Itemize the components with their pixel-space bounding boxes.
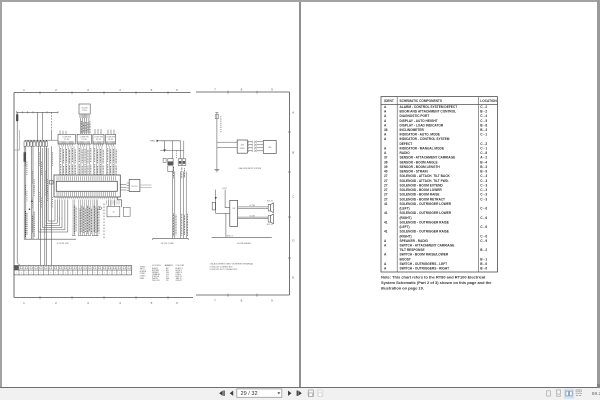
toolbar background [0, 388, 600, 400]
svg-text:7: 7 [214, 88, 216, 92]
svg-text:P3 XX: P3 XX [96, 139, 102, 141]
svg-text:2: 2 [55, 301, 57, 305]
svg-text:(LEFT): (LEFT) [400, 225, 410, 229]
svg-text:B - 2: B - 2 [480, 110, 487, 114]
caption J2 panel pin [57, 243, 69, 245]
svg-text:SWITCH - BOOM RAISE/LOWER: SWITCH - BOOM RAISE/LOWER [400, 253, 449, 257]
svg-text:(RIGHT): (RIGHT) [400, 216, 412, 220]
svg-text:C - 3: C - 3 [480, 174, 487, 178]
svg-text:YE: YE [166, 280, 169, 282]
svg-text:3: 3 [114, 273, 115, 275]
svg-text:SOLENOID - OUTRIGGER LOWER: SOLENOID - OUTRIGGER LOWER [400, 211, 452, 215]
wire bundles below J2 straight runs [72, 200, 99, 236]
zone numbers 7-9 [214, 88, 273, 303]
svg-text:5: 5 [151, 301, 153, 305]
svg-text:6: 6 [85, 273, 86, 275]
connector J1 right of block [120, 180, 151, 192]
svg-text:P2 XX: P2 XX [82, 139, 88, 141]
svg-text:A: A [384, 244, 387, 248]
svg-text:SENSOR - ATTACHMENT CARRIAGE: SENSOR - ATTACHMENT CARRIAGE [400, 156, 456, 160]
toolbar prev-view (disabled) [308, 390, 313, 397]
svg-text:8: 8 [94, 273, 95, 275]
toolbar separator line [0, 387, 600, 389]
zone numbers 1-6 top and bottom [23, 88, 178, 305]
wire bundle P1 to CPU connector [60, 146, 76, 175]
wire bundle P2 to CPU connector [78, 146, 91, 175]
svg-text:B - 4: B - 4 [480, 160, 487, 164]
note paragraph [381, 275, 492, 291]
viewer top border bar [0, 0, 600, 2]
svg-text:SWITCH - OUTRIGGERS - RIGHT: SWITCH - OUTRIGGERS - RIGHT [400, 267, 450, 271]
svg-text:2 CIRCUIT CONNECTED: 2 CIRCUIT CONNECTED [210, 266, 234, 268]
svg-text:GND 0 V: GND 0 V [226, 235, 234, 237]
svg-text:C - 1: C - 1 [480, 147, 487, 151]
svg-text:27: 27 [384, 197, 388, 201]
svg-text:1: 1 [60, 273, 61, 275]
svg-text:(LEFT): (LEFT) [400, 207, 410, 211]
svg-text:TILT RESPONSE: TILT RESPONSE [400, 248, 425, 252]
svg-text:B - 9: B - 9 [480, 170, 487, 174]
svg-text:SOLENOID - OUTRIGGER RAISE: SOLENOID - OUTRIGGER RAISE [400, 220, 449, 224]
svg-text:24 VOLT GRD: 24 VOLT GRD [161, 243, 175, 245]
connector P1 [58, 134, 75, 146]
diode modules D1 D2 [178, 159, 186, 166]
svg-text:27: 27 [384, 174, 388, 178]
caption ground bus [161, 243, 175, 245]
svg-text:(RIGHT): (RIGHT) [400, 234, 412, 238]
svg-text:illustration on page 19.: illustration on page 19. [381, 286, 424, 291]
toolbar next-page button [288, 391, 292, 396]
svg-text:B - 2: B - 2 [480, 248, 487, 252]
svg-text:B - 8: B - 8 [480, 123, 487, 127]
svg-text:41: 41 [384, 202, 388, 206]
svg-text:BOOM: BOOM [82, 107, 88, 109]
zone letters A-E right edge [292, 111, 295, 280]
connector hatch between display and module [249, 141, 264, 152]
svg-text:6: 6 [41, 273, 42, 275]
svg-text:27: 27 [384, 183, 388, 187]
svg-text:BOOM AND ATTACHMENT CONTROL: BOOM AND ATTACHMENT CONTROL [400, 110, 457, 114]
svg-text:ABBREV: ABBREV [165, 264, 174, 267]
connector J3 below block [107, 200, 130, 217]
svg-text:DISPLAY - LOAD INDICATOR: DISPLAY - LOAD INDICATOR [400, 123, 444, 127]
stub wires above connectors P1 P3 P4 [60, 129, 114, 134]
svg-text:3: 3 [87, 301, 89, 305]
svg-text:DEFECT: DEFECT [400, 142, 413, 146]
svg-text:C - 8: C - 8 [480, 151, 487, 155]
svg-text:SCHEMATIC COMPONENTS: SCHEMATIC COMPONENTS [400, 99, 442, 103]
branch wires down from RED feed [160, 141, 184, 159]
svg-text:C - 6: C - 6 [480, 216, 487, 220]
sheet border: right fold (zones 7-9) [196, 91, 291, 297]
svg-text:C - 6: C - 6 [480, 225, 487, 229]
svg-text:DIAGNOSTIC PORT: DIAGNOSTIC PORT [400, 114, 430, 118]
svg-text:J3: J3 [112, 212, 114, 214]
svg-text:SWITCH - OUTRIGGERS - LEFT: SWITCH - OUTRIGGERS - LEFT [400, 262, 448, 266]
svg-text:8: 8 [241, 299, 243, 303]
svg-text:SENSOR - STRAIN: SENSOR - STRAIN [400, 170, 429, 174]
svg-text:BOOST: BOOST [400, 257, 411, 261]
toolbar last-page button [297, 391, 302, 396]
svg-text:CTRL: CTRL [82, 110, 87, 112]
svg-text:6: 6 [176, 301, 178, 305]
dashed screen wire [103, 204, 105, 240]
svg-text:C: C [292, 195, 295, 199]
toolbar next-view (disabled) [318, 390, 323, 397]
svg-text:C - 3: C - 3 [480, 188, 487, 192]
terminal strip id column [140, 266, 147, 280]
inline connector symbols row [24, 140, 48, 146]
outrigger supply label [222, 188, 227, 190]
relay module K2 [163, 158, 173, 171]
svg-text:IDENT: IDENT [384, 99, 394, 103]
svg-text:A: A [384, 114, 387, 118]
layout two-page continuous icon [575, 390, 582, 396]
svg-text:A: A [384, 119, 387, 123]
svg-text:SOLENOID - ATTACH. TILT FWD.: SOLENOID - ATTACH. TILT FWD. [400, 179, 449, 183]
middle wires to ground bus [153, 167, 189, 240]
svg-text:C - 5: C - 5 [480, 119, 487, 123]
svg-text:2: 2 [109, 273, 110, 275]
svg-text:SPEAKER - RADIO: SPEAKER - RADIO [400, 239, 429, 243]
svg-text:DIS: DIS [241, 145, 245, 147]
connector P4 [106, 134, 116, 146]
svg-text:SWITCH - ATTACHMENT CARRIAGE: SWITCH - ATTACHMENT CARRIAGE [400, 244, 455, 248]
svg-text:SOLENOID - OUTRIGGER LOWER: SOLENOID - OUTRIGGER LOWER [400, 202, 452, 206]
inline fuse component left [14, 130, 26, 162]
svg-text:INDICATOR - MANUAL MODE: INDICATOR - MANUAL MODE [400, 147, 444, 151]
svg-text:3: 3 [87, 88, 89, 92]
svg-text:A: A [384, 239, 387, 243]
svg-text:PWR: PWR [140, 278, 145, 280]
wire labels along left runs [25, 152, 52, 237]
zoom percent text [592, 391, 600, 397]
viewer left border strip [0, 0, 2, 388]
load indicator supply wire [215, 113, 237, 170]
scrollbar bottom cap [597, 384, 600, 389]
svg-text:69.2: 69.2 [592, 391, 600, 397]
svg-text:B: B [292, 151, 294, 155]
svg-text:LMI: LMI [268, 147, 272, 149]
load indicator unit box [263, 141, 276, 154]
svg-text:J1/CPU: J1/CPU [131, 186, 138, 188]
page separator between two pages [299, 2, 301, 387]
svg-text:36: 36 [384, 128, 388, 132]
svg-text:27: 27 [384, 188, 388, 192]
svg-text:INCLINOMETER: INCLINOMETER [400, 128, 425, 132]
svg-text:40: 40 [384, 170, 388, 174]
svg-text:B - 1: B - 1 [480, 257, 487, 261]
svg-text:A: A [384, 151, 387, 155]
svg-text:D: D [292, 239, 295, 243]
solenoid Y1 [267, 201, 274, 213]
svg-text:SOLENOID - BOOM LOWER: SOLENOID - BOOM LOWER [400, 188, 443, 192]
svg-text:C - 6: C - 6 [480, 234, 487, 238]
svg-text:LOCATION: LOCATION [480, 99, 497, 103]
join bus above inline connectors [25, 112, 58, 142]
svg-text:24 V: 24 V [222, 188, 227, 190]
svg-text:SOLENOID - BOOM RETRACT: SOLENOID - BOOM RETRACT [400, 197, 446, 201]
svg-text:4: 4 [31, 273, 32, 275]
wire bundle P3 to CPU connector [94, 146, 104, 175]
svg-text:P1 XX: P1 XX [64, 139, 70, 141]
svg-text:ALARM - CONTROL SYSTEM DEFECT: ALARM - CONTROL SYSTEM DEFECT [400, 105, 458, 109]
svg-text:OUTRIGGERS: OUTRIGGERS [237, 243, 252, 245]
svg-text:SENSOR - BOOM LENGTH: SENSOR - BOOM LENGTH [400, 165, 441, 169]
svg-text:SOLENOID - OUTRIGGER RAISE: SOLENOID - OUTRIGGER RAISE [400, 230, 449, 234]
svg-text:LOAD INDICATOR SYSTEM: LOAD INDICATOR SYSTEM [238, 167, 262, 170]
sheet border: left fold (zones 1-6) [14, 91, 193, 299]
display module box [237, 140, 247, 153]
svg-text:SOL 41: SOL 41 [267, 224, 273, 226]
svg-text:37: 37 [384, 156, 388, 160]
svg-text:41: 41 [384, 211, 388, 215]
svg-text:1: 1 [23, 301, 25, 305]
svg-text:RADIO: RADIO [400, 151, 411, 155]
caption LOAD INDICATOR SYSTEM [238, 167, 262, 170]
junction dots left runs [29, 200, 33, 210]
svg-text:C - 3: C - 3 [480, 197, 487, 201]
svg-text:1: 1 [104, 273, 105, 275]
svg-text:8: 8 [50, 273, 51, 275]
terminal strip TB1 [14, 265, 132, 275]
svg-text:INDICATOR - CONTROL SYSTEM: INDICATOR - CONTROL SYSTEM [400, 137, 450, 141]
svg-text:3 CIRCUIT NOT CONNECTED: 3 CIRCUIT NOT CONNECTED [210, 269, 238, 271]
svg-text:3: 3 [70, 273, 71, 275]
svg-text:41: 41 [384, 230, 388, 234]
svg-text:J2 CPRL PIN: J2 CPRL PIN [57, 243, 69, 245]
wire colour legend table [152, 264, 185, 282]
svg-text:3: 3 [26, 273, 27, 275]
layout continuous icon [556, 390, 560, 396]
module: boom and attachment control head [79, 104, 90, 118]
wire bundle P4 to CPU connector [107, 146, 117, 175]
dashed drop wire from bus [51, 112, 53, 131]
svg-text:System Schematic (Part 2 of 3): System Schematic (Part 2 of 3) shown on … [381, 280, 492, 285]
svg-text:4: 4 [75, 273, 76, 275]
svg-text:INDICATOR - AUTO. MODE: INDICATOR - AUTO. MODE [400, 133, 440, 137]
svg-text:B - 6: B - 6 [480, 267, 487, 271]
svg-text:27: 27 [384, 179, 388, 183]
outrigger ground bus [212, 213, 272, 237]
svg-text:5: 5 [151, 88, 153, 92]
svg-text:5: 5 [124, 273, 125, 275]
CPU connector block J2 outer shell [50, 175, 122, 207]
svg-text:2: 2 [65, 273, 66, 275]
svg-text:×2 41B: ×2 41B [249, 214, 256, 217]
toolbar page field [237, 389, 282, 397]
svg-text:O/R: O/R [232, 208, 236, 210]
RED feed label and arrow [150, 140, 180, 143]
wire bundle from control head [81, 118, 90, 134]
svg-text:39: 39 [384, 165, 388, 169]
wire harness: left vertical pair runs [24, 146, 51, 265]
svg-text:C - 1: C - 1 [480, 133, 487, 137]
junction ring [99, 207, 102, 210]
svg-text:DISPLAY - AUTO HEIGHT: DISPLAY - AUTO HEIGHT [400, 119, 438, 123]
svg-text:41: 41 [384, 220, 388, 224]
svg-text:5: 5 [36, 273, 37, 275]
svg-text:1: 1 [16, 273, 17, 275]
table header [384, 99, 497, 103]
svg-text:C - 3: C - 3 [480, 193, 487, 197]
svg-text:1: 1 [23, 88, 25, 92]
svg-text:7: 7 [45, 273, 46, 275]
outrigger junction box [230, 200, 238, 226]
toolbar first-page button [219, 391, 225, 396]
svg-text:C - 2: C - 2 [480, 142, 487, 146]
notes 1-3 [210, 263, 254, 271]
battery drop wire with inline fuse [16, 112, 20, 265]
svg-text:9: 9 [99, 273, 100, 275]
viewer right scrollbar strip [597, 0, 600, 388]
connector P3 [93, 134, 104, 146]
svg-text:A: A [384, 133, 387, 137]
svg-text:VIOLET: VIOLET [176, 280, 183, 282]
svg-text:8: 8 [241, 88, 243, 92]
svg-text:1 BLACK WIRES USED ON SER: 1 BLACK WIRES USED ON SERIES TERMINAL [210, 263, 254, 266]
J2 pin band bottom [57, 192, 116, 199]
svg-text:6: 6 [129, 273, 130, 275]
svg-text:C - 3: C - 3 [480, 179, 487, 183]
svg-text:Note: This chart refers to the: Note: This chart refers to the RT80 and … [381, 275, 485, 280]
svg-text:×2 41A: ×2 41A [249, 204, 256, 207]
svg-text:SENSOR - BOOM ANGLE: SENSOR - BOOM ANGLE [400, 160, 438, 164]
connector P2 [77, 134, 91, 146]
svg-text:A: A [384, 253, 387, 257]
layout two-page icon (active) [564, 389, 574, 399]
layout single page icon [547, 391, 551, 396]
svg-text:9: 9 [271, 88, 273, 92]
svg-text:7: 7 [89, 273, 90, 275]
toolbar prev-page button [230, 391, 234, 396]
solenoid Y1 wires [238, 204, 269, 208]
svg-text:38: 38 [384, 160, 388, 164]
svg-text:9: 9 [55, 273, 56, 275]
svg-text:6: 6 [176, 88, 178, 92]
svg-text:YELLOW: YELLOW [152, 280, 160, 282]
svg-text:C - 2: C - 2 [480, 105, 487, 109]
svg-text:A: A [384, 267, 387, 271]
svg-text:27: 27 [384, 193, 388, 197]
svg-text:SOLENOID - BOOM RAISE: SOLENOID - BOOM RAISE [400, 193, 440, 197]
table rows [384, 105, 487, 271]
svg-text:C - 4: C - 4 [480, 114, 487, 118]
wire bends: J2 left pins U-routed to left runs [24, 148, 76, 239]
svg-text:4: 4 [119, 301, 121, 305]
svg-text:4: 4 [119, 88, 121, 92]
svg-text:SOLENOID - ATTACH. TILT BACK: SOLENOID - ATTACH. TILT BACK [400, 174, 451, 178]
svg-text:B - 3: B - 3 [480, 165, 487, 169]
supply bus top-left [17, 111, 58, 114]
ground symbol load indicator [214, 170, 219, 172]
svg-text:B - 6: B - 6 [480, 262, 487, 266]
svg-text:A: A [292, 111, 294, 115]
svg-text:A: A [384, 137, 387, 141]
svg-text:B - 3: B - 3 [480, 128, 487, 132]
solenoid Y2 wires [238, 214, 269, 218]
svg-text:7: 7 [214, 299, 216, 303]
svg-text:2: 2 [55, 88, 57, 92]
svg-text:9: 9 [271, 299, 273, 303]
svg-text:2: 2 [21, 273, 22, 275]
svg-text:RED: RED [150, 141, 155, 143]
ignition drop wire with arrow [164, 141, 166, 152]
svg-text:A: A [384, 110, 387, 114]
svg-text:E: E [292, 276, 294, 280]
caption outrigger circuit [237, 243, 252, 245]
svg-text:SOL 41: SOL 41 [267, 201, 273, 203]
svg-text:A: A [384, 147, 387, 151]
svg-text:C - 3: C - 3 [480, 183, 487, 187]
svg-text:A: A [384, 123, 387, 127]
svg-text:P4 XX: P4 XX [108, 139, 114, 141]
outrigger feed wires [212, 190, 230, 214]
svg-text:A - 2: A - 2 [480, 156, 487, 160]
component table frame [381, 97, 498, 272]
svg-text:PLAY: PLAY [240, 147, 245, 150]
solenoid Y2 [267, 214, 274, 226]
svg-text:C - 6: C - 6 [480, 207, 487, 211]
svg-text:29 / 32: 29 / 32 [241, 391, 258, 397]
svg-text:5: 5 [80, 273, 81, 275]
svg-text:SOLENOID - BOOM EXTEND: SOLENOID - BOOM EXTEND [400, 183, 444, 187]
svg-text:A: A [384, 105, 387, 109]
svg-text:A: A [384, 262, 387, 266]
J2 pin band top [57, 176, 116, 180]
svg-text:4: 4 [119, 273, 120, 275]
svg-text:C - 9: C - 9 [480, 239, 487, 243]
